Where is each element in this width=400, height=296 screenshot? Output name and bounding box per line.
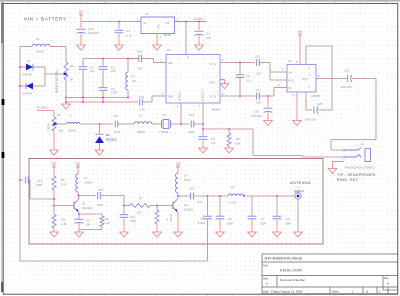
svg-text:C5: C5: [246, 74, 250, 78]
capacitor C13 47P: [202, 128, 204, 130]
ground: [296, 118, 298, 121]
svg-text:Date:: Date:: [263, 289, 269, 293]
resistor R9: [156, 206, 158, 211]
wire VIN to U3: [299, 36, 301, 65]
wire C2 down: [82, 70, 84, 98]
svg-text:390P: 390P: [260, 222, 266, 226]
resistor R5 6.2K: [52, 176, 56, 190]
wire C17 to IN-: [260, 95, 274, 97]
node rail L1: [127, 58, 129, 60]
ground: [202, 147, 204, 148]
ground: [219, 231, 221, 232]
wire OSCOUT pin: [202, 103, 204, 129]
svg-text:220P: 220P: [188, 130, 194, 134]
capacitor C19 10N: [178, 195, 191, 197]
svg-text:78L08: 78L08: [163, 33, 171, 37]
node D2 cathode: [19, 85, 21, 87]
svg-text:JEFF ANDERSON, N0GGI: JEFF ANDERSON, N0GGI: [264, 257, 302, 261]
border zone ticks top: [29, 2, 386, 4]
svg-text:Document Number: Document Number: [280, 278, 305, 282]
svg-text:of: of: [366, 290, 369, 294]
ground: [78, 231, 80, 232]
svg-text:R6: R6: [62, 218, 66, 222]
svg-text:7.0MHZ: 7.0MHZ: [159, 130, 169, 134]
svg-text:Sheet: Sheet: [332, 289, 339, 293]
wire C15 to OSCOUT: [194, 123, 203, 125]
svg-text:10N: 10N: [140, 108, 145, 112]
svg-text:C3: C3: [111, 66, 115, 70]
svg-text:L3: L3: [84, 176, 88, 180]
svg-text:C1: C1: [206, 32, 210, 36]
svg-text:C4: C4: [111, 87, 115, 91]
wire U1 output rail: [174, 21, 207, 23]
svg-text:10N: 10N: [256, 101, 261, 105]
node C1 tap: [198, 21, 200, 23]
svg-text:R1: R1: [57, 113, 61, 117]
svg-text:150P: 150P: [97, 203, 103, 207]
svg-text:C12: C12: [37, 179, 43, 183]
capacitor C1: [195, 30, 204, 32]
wire base node to Q1: [54, 205, 74, 207]
svg-text:C11: C11: [86, 220, 91, 223]
ground: [267, 118, 269, 121]
svg-text:6.8K: 6.8K: [62, 222, 68, 226]
border zone ticks bottom: [29, 294, 386, 295]
svg-text:R4: R4: [70, 64, 74, 68]
wire antenna shell ground: [297, 199, 299, 204]
node rail C3: [102, 58, 104, 60]
transistor Q3 2N3553: [172, 202, 174, 209]
svg-text:C8: C8: [286, 217, 290, 221]
svg-text:10N: 10N: [137, 67, 142, 71]
left window bar bottom: [1, 282, 3, 292]
svg-text:A: A: [266, 282, 268, 286]
inductor L4 56UH: [176, 173, 178, 193]
svg-text:C10: C10: [130, 215, 136, 219]
wire D1 out: [33, 66, 45, 68]
svg-text:L4: L4: [184, 174, 188, 178]
diode D2 1N4148: [20, 85, 26, 87]
wire R6 to ground: [53, 228, 55, 232]
svg-text:1N4148: 1N4148: [22, 92, 32, 96]
svg-text:OSCOUT: OSCOUT: [201, 89, 205, 101]
node +8 rail to U2: [185, 21, 187, 23]
svg-text:47P: 47P: [211, 142, 216, 146]
ground: [251, 231, 253, 232]
wire C24 to jack: [352, 78, 376, 80]
svg-text:10N: 10N: [206, 36, 211, 40]
svg-text:VIN = BATTERY: VIN = BATTERY: [24, 17, 67, 22]
wire R4 bottom: [65, 80, 67, 104]
svg-text:U2: U2: [167, 48, 171, 52]
node R7 left: [123, 205, 125, 207]
inductor L3 0.68UH: [76, 174, 78, 192]
wire R5 to base node: [53, 190, 55, 215]
svg-text:L8: L8: [36, 37, 40, 41]
wire C1 tap: [198, 22, 200, 31]
svg-text:VIN: VIN: [79, 9, 84, 13]
svg-text:C7: C7: [261, 217, 265, 221]
wire AGC rail: [66, 101, 138, 103]
varactor D0 MV2100: [99, 124, 101, 133]
wire tap down: [207, 220, 209, 262]
svg-text:C15: C15: [189, 113, 195, 117]
node C4 tap: [118, 21, 120, 23]
wire VIN to R5: [53, 168, 55, 176]
wire VIN to L3: [77, 168, 79, 174]
svg-text:C16: C16: [255, 55, 261, 59]
svg-text:R2: R2: [236, 137, 240, 141]
wire C16 to IN+: [259, 62, 270, 64]
capacitor C20 100U: [267, 96, 269, 107]
node R9 top: [156, 205, 158, 207]
svg-text:1N4148: 1N4148: [22, 73, 32, 77]
left window bar top: [1, 2, 3, 43]
wire Q1 emitter: [78, 213, 80, 219]
svg-text:C24: C24: [344, 69, 350, 73]
resistor R6 6.8K: [52, 215, 56, 229]
svg-text:Title: Title: [263, 264, 268, 268]
svg-text:INA: INA: [168, 61, 173, 65]
svg-text:C8: C8: [200, 217, 204, 221]
svg-text:10P: 10P: [90, 69, 95, 73]
svg-text:100U/40V: 100U/40V: [251, 115, 262, 118]
svg-text:C6: C6: [228, 217, 232, 221]
svg-text:PHONEJACK STEREO: PHONEJACK STEREO: [345, 166, 375, 170]
wire L5 out: [244, 195, 295, 197]
svg-text:390P: 390P: [285, 222, 291, 226]
ground: [99, 149, 101, 150]
svg-text:5K: 5K: [70, 78, 74, 82]
svg-text:C4: C4: [126, 29, 130, 33]
svg-text:L1: L1: [132, 74, 136, 78]
svg-text:0.1U: 0.1U: [114, 130, 120, 134]
wire +8 to U2 pin8: [185, 22, 187, 55]
section box: [29, 159, 323, 245]
svg-text:TIP - HEADPHONES: TIP - HEADPHONES: [337, 173, 376, 177]
ground: [156, 231, 158, 232]
svg-text:O_A: O_A: [210, 62, 216, 66]
node Q1 collector: [77, 192, 79, 196]
node C5 bottom: [239, 95, 241, 97]
svg-text:INB: INB: [168, 95, 173, 99]
svg-text:OSCIN: OSCIN: [178, 92, 182, 101]
svg-text:22P: 22P: [111, 69, 116, 73]
svg-text:LM386: LM386: [311, 94, 320, 98]
svg-text:10N: 10N: [197, 200, 202, 204]
svg-text:VIN: VIN: [298, 29, 303, 33]
inductor L1: [127, 59, 129, 73]
wire key line: [203, 128, 253, 130]
svg-text:C2: C2: [90, 66, 94, 70]
capacitor C3 22P: [102, 59, 104, 67]
svg-text:MV2100: MV2100: [106, 138, 117, 142]
wire L6 to crystal: [152, 123, 161, 125]
svg-text:150P: 150P: [36, 183, 42, 187]
svg-text:560UH: 560UH: [68, 129, 76, 133]
wire receive feedback: [20, 260, 208, 262]
capacitor C4b 270P: [99, 87, 108, 89]
resistor R2 6.8K: [228, 128, 230, 130]
capacitor C12 150P: [19, 179, 21, 181]
wire jack sleeve to ground: [333, 161, 345, 163]
svg-text:220U/35V: 220U/35V: [88, 31, 100, 35]
node tap: [207, 195, 209, 197]
transistor Q1 2N2222A: [73, 202, 75, 209]
svg-text:10K: 10K: [137, 211, 142, 215]
wire L7 to varactor: [80, 123, 113, 125]
node R4 gnd rail: [65, 97, 67, 99]
svg-text:1.8K: 1.8K: [105, 222, 110, 225]
svg-text:C21: C21: [139, 95, 145, 99]
svg-text:680P: 680P: [227, 222, 233, 226]
svg-text:A: A: [387, 282, 389, 286]
svg-text:Rev: Rev: [384, 276, 389, 280]
ground: [80, 44, 82, 45]
wire VIN to rail: [80, 16, 82, 28]
svg-text:6.8K: 6.8K: [235, 142, 241, 146]
ground: [276, 231, 278, 232]
svg-text:0.1U: 0.1U: [126, 34, 132, 38]
wire pin1 to C28: [305, 92, 307, 110]
border fold mark 2: [2, 152, 5, 158]
ground: [224, 83, 226, 84]
capacitor C22: [77, 28, 86, 30]
svg-text:L7: L7: [69, 114, 73, 118]
node Q3 collector: [177, 193, 179, 196]
svg-text:2N2222A: 2N2222A: [82, 207, 93, 210]
ground: [118, 44, 120, 45]
wire U2 gnd pin: [220, 79, 225, 81]
svg-text:VIN: VIN: [76, 161, 81, 165]
svg-text:C13: C13: [210, 137, 216, 141]
svg-text:C20: C20: [254, 110, 260, 114]
svg-text:0.6UH: 0.6UH: [36, 50, 44, 54]
svg-text:C17: C17: [256, 88, 262, 92]
wire D2 out: [33, 85, 45, 87]
svg-text:RING- KEY: RING- KEY: [337, 178, 358, 182]
wire C4 tap: [118, 22, 120, 30]
wire cap to L6: [118, 123, 134, 125]
capacitor C7 390P: [251, 196, 253, 216]
border fold mark 1: [2, 99, 5, 105]
svg-text:D0: D0: [106, 133, 110, 137]
svg-text:R5: R5: [61, 178, 65, 182]
diode D1 1N4148: [20, 66, 26, 68]
svg-text:R7: R7: [139, 197, 143, 201]
svg-text:180UH: 180UH: [137, 130, 145, 134]
capacitor C16 0.1U vfo: [114, 121, 116, 128]
svg-text:150P: 150P: [130, 219, 136, 223]
svg-text:+8 VDC: +8 VDC: [193, 17, 203, 21]
ground: [53, 231, 55, 232]
wire R1 wiper: [58, 123, 67, 125]
ground: [156, 44, 158, 45]
capacitor C8 1000P: [207, 196, 209, 216]
svg-text:2N3553: 2N3553: [184, 209, 193, 212]
node OSCIN rail: [180, 123, 182, 125]
node varactor: [99, 123, 101, 125]
node OSCOUT rail: [202, 123, 204, 125]
wire VIN rail: [81, 21, 135, 23]
svg-text:L6: L6: [139, 114, 143, 118]
svg-text:INPUT ATTEN: INPUT ATTEN: [55, 70, 59, 93]
svg-text:BYP: BYP: [289, 79, 294, 83]
svg-text:ANTENNA: ANTENNA: [290, 181, 311, 185]
svg-text:O_B: O_B: [210, 95, 216, 99]
svg-text:D1: D1: [27, 59, 31, 63]
svg-text:C19: C19: [189, 187, 195, 191]
svg-text:Z1: Z1: [163, 113, 167, 117]
wire OUT: [316, 78, 347, 80]
ground: [228, 147, 230, 148]
title block frame: [262, 254, 398, 294]
svg-text:56UH: 56UH: [184, 179, 191, 182]
svg-text:IN-: IN-: [289, 86, 293, 90]
wire crystal to C15: [171, 123, 190, 125]
svg-text:C28: C28: [317, 102, 323, 106]
ground: [332, 168, 334, 169]
svg-text:GND: GND: [209, 81, 215, 85]
wire L8 to attenuator: [50, 46, 66, 48]
wire U3 gnd pin4: [296, 92, 298, 120]
wire RF rail top: [83, 58, 139, 60]
capacitor C4: [115, 29, 124, 31]
resistor R8 1.8K: [79, 213, 102, 215]
svg-text:NE602: NE602: [212, 108, 221, 112]
wire mid rail: [66, 97, 128, 99]
top window strip: [0, 0, 400, 2]
wire U1 input: [135, 21, 141, 23]
wire BYP: [270, 79, 287, 81]
capacitor C18 150P: [79, 195, 97, 197]
ground: [123, 231, 125, 232]
svg-text:IN+: IN+: [289, 71, 294, 75]
capacitor C5 0.1U: [236, 74, 245, 76]
ground: [177, 231, 179, 232]
wire U1 gnd: [156, 34, 158, 45]
wire AGC to pot: [53, 111, 55, 118]
node C5 top: [239, 62, 241, 64]
svg-text:VI: VI: [144, 21, 147, 25]
svg-text:U3: U3: [288, 59, 292, 63]
left window bar mid: [1, 43, 3, 282]
svg-text:10N: 10N: [86, 224, 91, 227]
wire C3 mid: [102, 70, 104, 87]
wire O_A out: [220, 62, 255, 64]
node D1 anode: [19, 66, 21, 68]
svg-text:R_AGC: R_AGC: [37, 106, 48, 110]
svg-text:Q1: Q1: [82, 202, 86, 206]
wire C1 to ground: [198, 35, 200, 45]
svg-text:GND: GND: [158, 23, 161, 29]
capacitor C6 680P: [219, 195, 221, 197]
wire VIN to L4: [177, 168, 179, 173]
svg-text:10U: 10U: [132, 79, 137, 83]
svg-text:6 M DC XCVR: 6 M DC XCVR: [280, 269, 302, 273]
svg-text:1000P: 1000P: [198, 221, 206, 225]
gain loop pin8: [305, 46, 307, 65]
wire C19 to filter: [193, 195, 228, 197]
svg-text:C22: C22: [88, 27, 94, 31]
wire R1 bottom to ground: [53, 131, 55, 150]
wire C22 to ground: [80, 33, 82, 45]
svg-text:100U/16V: 100U/16V: [305, 119, 316, 122]
wire OSCIN pin: [180, 103, 182, 124]
svg-text:25K: 25K: [58, 129, 63, 133]
capacitor C8c 390P: [276, 196, 278, 216]
capacitor C11 10N: [75, 218, 84, 220]
ground: [65, 103, 67, 104]
svg-text:G: G: [308, 68, 310, 70]
wire to Q3 base: [170, 205, 173, 207]
svg-text:6.2K: 6.2K: [61, 183, 67, 187]
svg-text:C18: C18: [98, 188, 104, 192]
wire O_B out: [220, 95, 255, 97]
ground: [53, 149, 55, 150]
svg-text:100U/16V: 100U/16V: [341, 86, 352, 89]
svg-text:Friday, August 21, 2009: Friday, August 21, 2009: [271, 290, 303, 294]
capacitor C2 10P: [79, 66, 88, 68]
svg-text:VIN: VIN: [52, 161, 57, 165]
svg-text:10N: 10N: [256, 72, 261, 76]
svg-text:1.2UH: 1.2UH: [229, 201, 236, 205]
svg-text:0.68UH: 0.68UH: [84, 182, 93, 185]
ground: [198, 44, 200, 45]
svg-text:C26: C26: [137, 50, 143, 54]
svg-text:Q3: Q3: [184, 203, 188, 207]
wire C18 to C10 node: [101, 195, 124, 197]
svg-text:270P: 270P: [111, 91, 117, 95]
svg-text:L5: L5: [231, 185, 235, 189]
svg-text:0.1U: 0.1U: [246, 79, 252, 83]
svg-text:VR200: VR200: [47, 123, 51, 131]
ground: [297, 231, 299, 232]
wire C4 to ground: [118, 34, 120, 45]
svg-text:OUT: OUT: [302, 77, 308, 81]
wire attenuator junction: [44, 67, 46, 86]
svg-text:G: G: [308, 87, 310, 89]
wire Q3 emitter choke: [177, 213, 179, 232]
svg-text:Size: Size: [263, 277, 269, 281]
capacitor C10 150P: [123, 206, 125, 215]
wire input left loop: [19, 47, 21, 262]
svg-text:C16: C16: [113, 114, 119, 118]
svg-text:470UH: 470UH: [170, 214, 173, 222]
svg-text:U1: U1: [145, 12, 149, 16]
svg-text:VIN: VIN: [176, 161, 181, 165]
